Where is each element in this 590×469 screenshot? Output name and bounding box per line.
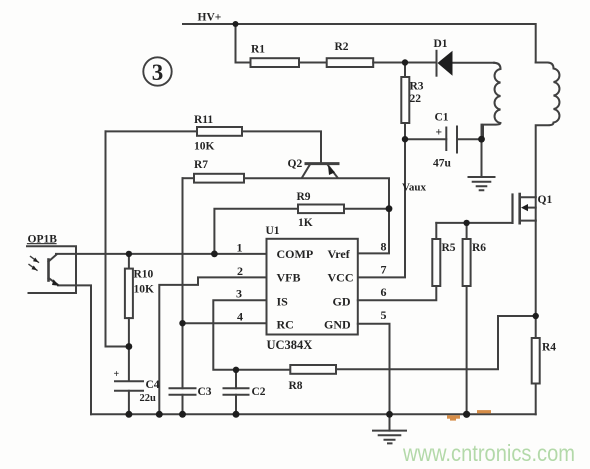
svg-text:Q1: Q1 bbox=[538, 194, 553, 206]
svg-text:6: 6 bbox=[381, 285, 387, 299]
svg-text:VFB: VFB bbox=[277, 271, 301, 285]
svg-text:1K: 1K bbox=[298, 217, 313, 229]
svg-text:Vaux: Vaux bbox=[402, 182, 427, 194]
svg-text:R5: R5 bbox=[442, 242, 456, 254]
svg-text:Q2: Q2 bbox=[288, 158, 303, 170]
svg-text:HV+: HV+ bbox=[198, 12, 222, 24]
svg-text:5: 5 bbox=[381, 308, 387, 322]
svg-text:R3: R3 bbox=[410, 81, 424, 93]
svg-text:47u: 47u bbox=[433, 158, 452, 170]
svg-text:R10: R10 bbox=[134, 269, 154, 281]
svg-text:3: 3 bbox=[236, 287, 242, 301]
svg-text:1: 1 bbox=[237, 241, 243, 255]
svg-text:10K: 10K bbox=[134, 284, 155, 296]
svg-text:VCC: VCC bbox=[328, 271, 354, 285]
svg-text:GND: GND bbox=[324, 318, 351, 332]
svg-text:R9: R9 bbox=[297, 191, 311, 203]
svg-text:R8: R8 bbox=[289, 380, 303, 392]
svg-text:C2: C2 bbox=[252, 386, 266, 398]
svg-text:COMP: COMP bbox=[277, 247, 314, 261]
svg-text:RC: RC bbox=[277, 318, 294, 332]
svg-text:UC384X: UC384X bbox=[267, 338, 313, 352]
svg-text:R7: R7 bbox=[194, 159, 208, 171]
svg-text:C1: C1 bbox=[435, 112, 449, 124]
svg-text:22u: 22u bbox=[140, 393, 157, 404]
svg-text:www.cntronics.com: www.cntronics.com bbox=[402, 440, 575, 466]
svg-text:D1: D1 bbox=[434, 38, 448, 50]
svg-text:R1: R1 bbox=[251, 44, 265, 56]
svg-text:OP1B: OP1B bbox=[28, 234, 58, 246]
svg-text:R4: R4 bbox=[542, 342, 556, 354]
svg-text:+: + bbox=[436, 127, 443, 139]
svg-text:2: 2 bbox=[237, 264, 243, 278]
svg-text:Vref: Vref bbox=[328, 247, 351, 261]
svg-text:22: 22 bbox=[410, 93, 422, 105]
svg-text:R6: R6 bbox=[472, 242, 486, 254]
svg-text:4: 4 bbox=[237, 310, 243, 324]
svg-text:3: 3 bbox=[152, 60, 164, 85]
svg-text:IS: IS bbox=[277, 295, 289, 309]
svg-text:7: 7 bbox=[381, 263, 387, 277]
svg-text:C3: C3 bbox=[198, 386, 212, 398]
svg-text:GD: GD bbox=[333, 295, 351, 309]
svg-text:+: + bbox=[114, 369, 120, 380]
svg-text:R2: R2 bbox=[335, 41, 349, 53]
svg-text:8: 8 bbox=[381, 240, 387, 254]
svg-text:U1: U1 bbox=[266, 225, 280, 237]
svg-text:C4: C4 bbox=[146, 379, 160, 391]
svg-text:10K: 10K bbox=[194, 141, 215, 153]
svg-text:R11: R11 bbox=[194, 114, 213, 126]
